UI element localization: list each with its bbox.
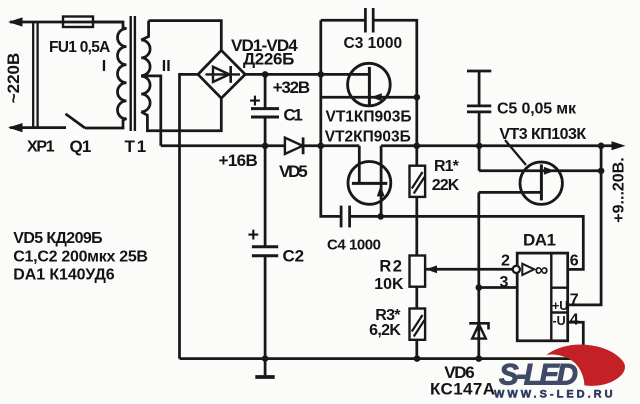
svg-text:VT1КП903Б: VT1КП903Б bbox=[326, 108, 412, 125]
svg-text:6: 6 bbox=[570, 253, 579, 270]
svg-text:C1: C1 bbox=[283, 106, 302, 125]
svg-text:+32В: +32В bbox=[273, 78, 310, 97]
svg-text:3: 3 bbox=[500, 274, 509, 291]
svg-text:FU1 0,5A: FU1 0,5A bbox=[49, 39, 110, 56]
svg-text:R1*: R1* bbox=[434, 158, 460, 175]
svg-text:Q1: Q1 bbox=[70, 137, 91, 156]
svg-text:C1,C2 200мкх 25В: C1,C2 200мкх 25В bbox=[13, 248, 147, 265]
svg-text:DA1 К140УД6: DA1 К140УД6 bbox=[13, 266, 114, 283]
svg-text:S-LED: S-LED bbox=[499, 359, 578, 392]
svg-text:4: 4 bbox=[570, 312, 579, 329]
svg-text:C2: C2 bbox=[283, 246, 304, 265]
svg-text:VD5: VD5 bbox=[279, 162, 307, 181]
svg-text:C4 1000: C4 1000 bbox=[327, 237, 381, 254]
svg-text:C5 0,05 мк: C5 0,05 мк bbox=[497, 101, 577, 118]
svg-text:DA1: DA1 bbox=[523, 231, 556, 250]
svg-text:22K: 22K bbox=[432, 177, 460, 194]
svg-text:+9...20В.: +9...20В. bbox=[611, 157, 628, 222]
svg-text:-U: -U bbox=[553, 314, 566, 328]
svg-text:∞: ∞ bbox=[535, 260, 549, 281]
svg-text:R2: R2 bbox=[379, 257, 403, 275]
svg-text:VT3 КП103К: VT3 КП103К bbox=[499, 126, 586, 143]
svg-text:Д226Б: Д226Б bbox=[243, 49, 294, 68]
svg-text:VT2КП903Б: VT2КП903Б bbox=[325, 129, 411, 146]
svg-text:XP1: XP1 bbox=[27, 139, 55, 156]
svg-text:+: + bbox=[248, 224, 259, 246]
svg-text:C3 1000: C3 1000 bbox=[344, 35, 403, 52]
svg-text:~220В: ~220В bbox=[4, 53, 23, 104]
svg-text:+16В: +16В bbox=[219, 151, 258, 170]
svg-text:КС147А: КС147А bbox=[430, 380, 495, 399]
svg-text:7: 7 bbox=[570, 291, 579, 308]
svg-text:10K: 10K bbox=[374, 276, 404, 293]
svg-text:II: II bbox=[162, 58, 171, 75]
svg-text:+U: +U bbox=[552, 299, 568, 313]
svg-text:+: + bbox=[249, 90, 260, 112]
svg-text:6,2K: 6,2K bbox=[369, 322, 401, 339]
svg-text:T1: T1 bbox=[125, 137, 149, 156]
svg-text:I: I bbox=[102, 58, 106, 75]
svg-text:2: 2 bbox=[501, 253, 510, 270]
svg-text:VD5 КД209Б: VD5 КД209Б bbox=[13, 230, 102, 247]
svg-text:WWW.S-LED.RU: WWW.S-LED.RU bbox=[494, 389, 616, 401]
